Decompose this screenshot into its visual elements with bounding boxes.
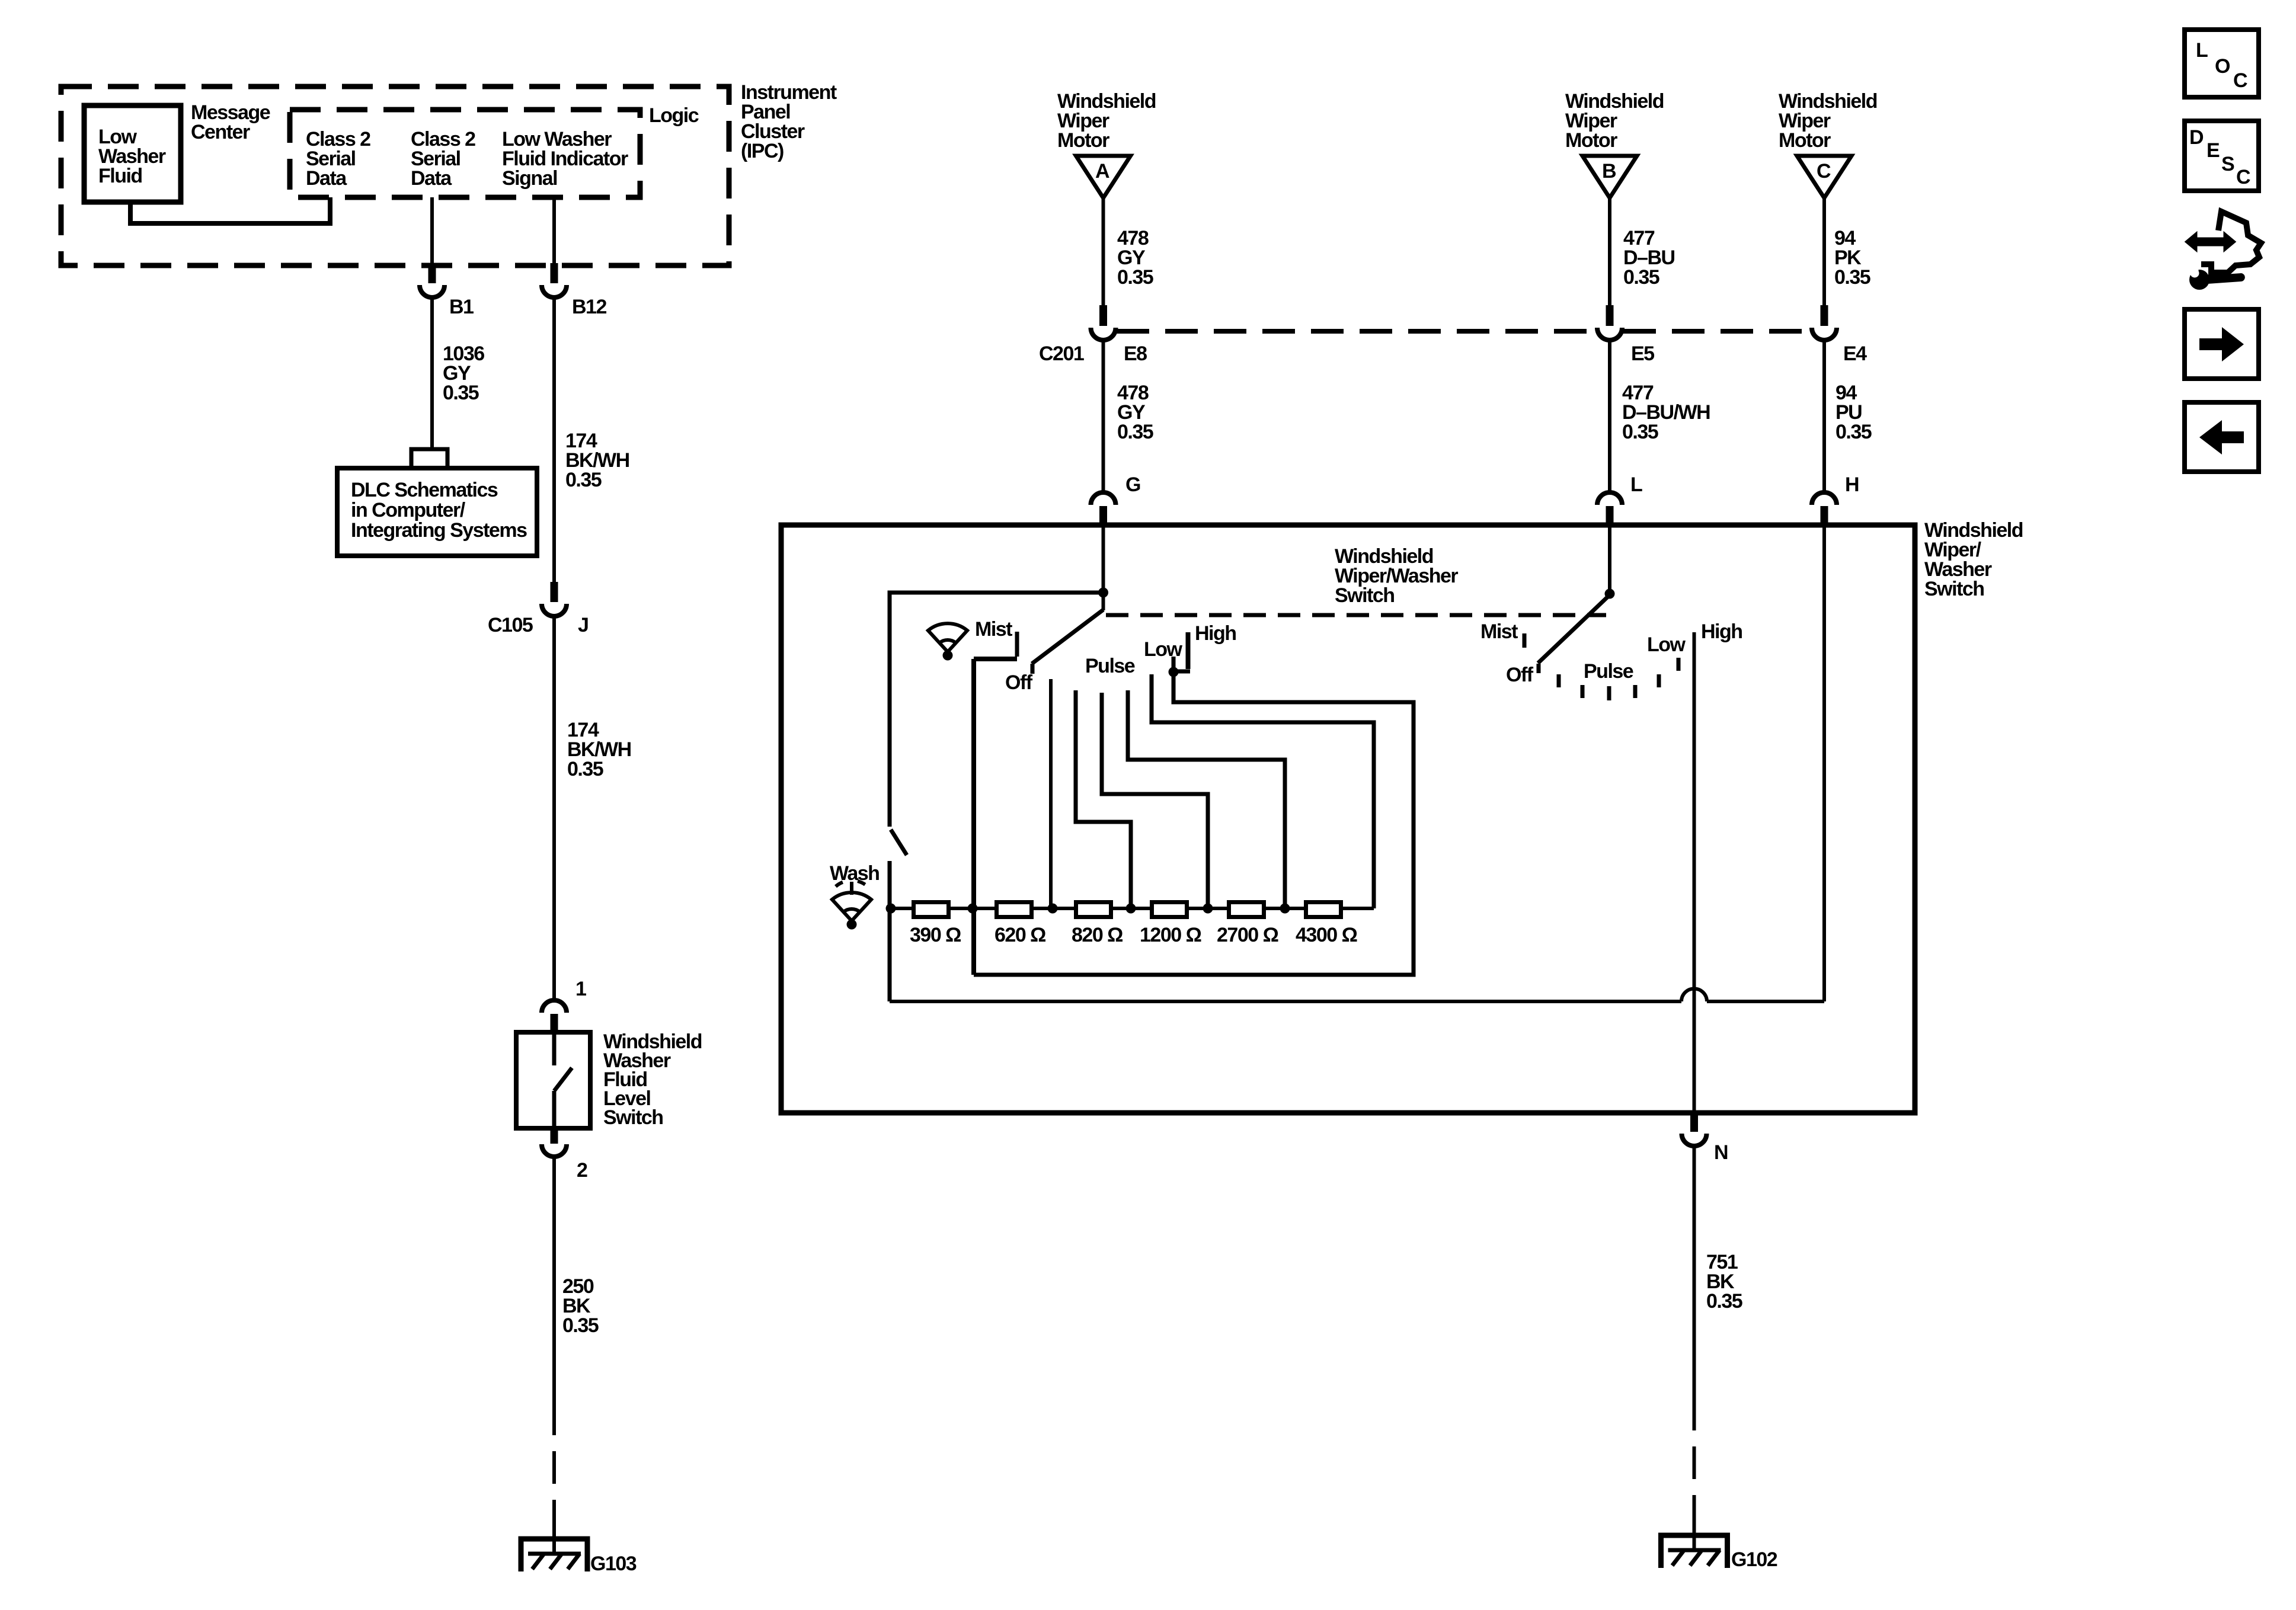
svg-text:Switch: Switch — [1335, 584, 1395, 607]
ground G103 — [521, 1517, 587, 1571]
wire Low Washer Fluid Indicator Signal to B12 — [552, 197, 556, 264]
svg-text:G102: G102 — [1731, 1548, 1777, 1571]
resistor chain wire — [891, 907, 1374, 910]
svg-text:C: C — [1817, 160, 1831, 183]
label Windshield Wiper Motor (A) — [1057, 90, 1156, 152]
windshield wiper motor B triangle — [1582, 156, 1637, 198]
wire H into switch down to wash line — [1822, 525, 1826, 1001]
svg-text:Fluid: Fluid — [98, 165, 142, 187]
svg-text:2: 2 — [577, 1159, 587, 1182]
DLC Schematics box — [337, 468, 537, 556]
High contact line to N — [1693, 632, 1696, 1113]
connector C105 pin — [551, 582, 558, 602]
svg-text:Integrating Systems: Integrating Systems — [351, 519, 527, 542]
svg-text:Pulse: Pulse — [1085, 655, 1135, 677]
IPC dashed box (Instrument Panel Cluster) — [61, 87, 729, 265]
svg-text:0.35: 0.35 — [565, 469, 602, 491]
wire 1036 GY 0.35 — [430, 297, 434, 449]
connector pin2 pin — [551, 1128, 558, 1144]
wire Class 2 Serial Data to B1 — [430, 197, 434, 264]
node 2700/4300 — [1280, 904, 1290, 914]
svg-text:C105: C105 — [488, 614, 533, 636]
svg-text:Off: Off — [1005, 671, 1033, 694]
svg-text:0.35: 0.35 — [1706, 1290, 1742, 1313]
Off contact stub — [1537, 664, 1541, 673]
svg-text:Data: Data — [411, 167, 452, 190]
label Message Center — [191, 101, 270, 143]
node wash/390 — [886, 904, 896, 914]
svg-text:S: S — [2221, 153, 2234, 175]
connector L pin — [1606, 506, 1614, 525]
wire 478 GY 0.35 (motor A) — [1102, 198, 1105, 305]
right arrow icon box — [2185, 309, 2259, 379]
connector E5 pin — [1606, 305, 1614, 326]
svg-text:L: L — [2196, 39, 2208, 62]
pulse tap 2 — [1076, 690, 1131, 908]
svg-text:820 Ω: 820 Ω — [1072, 924, 1123, 946]
connector pin1 pin — [551, 1014, 558, 1032]
wash switch blade — [891, 830, 907, 855]
connector C201 dashed line — [1117, 329, 1812, 334]
svg-text:G103: G103 — [590, 1553, 637, 1575]
junction node left wafer — [1098, 588, 1108, 598]
node 820/1200 — [1126, 904, 1136, 914]
wire L into switch — [1608, 525, 1611, 594]
svg-text:C201: C201 — [1039, 343, 1084, 365]
wiper icon (Mist) — [928, 623, 967, 660]
connector G pin — [1099, 506, 1107, 525]
svg-text:0.35: 0.35 — [1835, 421, 1872, 443]
dashed wire to G102 — [1693, 1398, 1696, 1531]
svg-text:Switch: Switch — [1924, 578, 1984, 600]
label 94 PU 0.35 — [1835, 382, 1872, 443]
junction node Low/High — [1169, 667, 1179, 677]
svg-text:Motor: Motor — [1565, 129, 1617, 152]
svg-text:Low: Low — [1144, 638, 1183, 661]
wire 478 GY 0.35 lower — [1102, 340, 1105, 491]
svg-text:(IPC): (IPC) — [741, 140, 784, 162]
connector E8 cup — [1091, 328, 1116, 340]
label 174 BK/WH 0.35 lower — [567, 719, 631, 780]
resistor 820 — [1076, 902, 1111, 917]
resistor 2700 — [1229, 902, 1264, 917]
connector B12 pin — [551, 263, 558, 283]
label Windshield Washer Fluid Level Switch — [603, 1030, 702, 1129]
switch blade (left wafer, in Off) — [1102, 593, 1105, 610]
off-page bracket to DLC — [411, 449, 447, 467]
Low contact tick — [1677, 658, 1681, 671]
svg-text:B12: B12 — [572, 296, 606, 318]
svg-text:1200 Ω: 1200 Ω — [1140, 924, 1201, 946]
label Instrument Panel Cluster (IPC) — [741, 81, 837, 162]
connector E4 pin — [1821, 305, 1828, 326]
label 478 GY 0.35 lower — [1117, 382, 1153, 443]
switch blade (right wafer, in Off) — [1538, 595, 1610, 663]
mechanical link dashed — [1106, 613, 1606, 617]
label Class 2 Serial Data (right) — [411, 128, 475, 190]
svg-text:J: J — [578, 614, 588, 636]
wire 174 BK/WH 0.35 lower — [552, 616, 556, 999]
svg-text:1: 1 — [575, 978, 586, 1000]
wire 751 BK 0.35 — [1693, 1146, 1696, 1398]
junction node right wafer — [1605, 589, 1615, 599]
label 250 BK 0.35 — [562, 1275, 599, 1337]
windshield wiper motor A triangle — [1076, 156, 1131, 198]
label Windshield Wiper/Washer Switch (outside right) — [1924, 519, 2023, 600]
svg-text:Pulse: Pulse — [1584, 660, 1633, 683]
LOC icon box — [2185, 30, 2259, 97]
Low Washer Fluid indicator box — [84, 105, 181, 202]
wire junction to wash switch — [890, 593, 1104, 827]
High return path to first tap — [974, 672, 1414, 975]
Windshield Washer Fluid Level Switch box — [516, 1032, 590, 1128]
svg-text:0.35: 0.35 — [1117, 421, 1153, 443]
connector C105 cup — [542, 604, 567, 616]
svg-text:0.35: 0.35 — [562, 1314, 599, 1337]
wash line across with hop over N line — [890, 989, 1824, 1002]
label 477 D-BU 0.35 — [1623, 227, 1675, 289]
wire 94 PK 0.35 (motor C) — [1822, 198, 1826, 305]
node 1200/2700 — [1203, 904, 1213, 914]
harness tool icon (double arrow, harness outline, wrench) — [2185, 212, 2261, 290]
svg-text:DLC Schematics: DLC Schematics — [351, 479, 498, 501]
Low line to resistor end — [1152, 674, 1374, 908]
label 751 BK 0.35 — [1706, 1251, 1742, 1313]
High contact — [1173, 632, 1190, 671]
svg-text:Mist: Mist — [1480, 620, 1518, 643]
connector E4 cup — [1812, 328, 1837, 340]
Logic dashed box — [290, 110, 640, 197]
svg-text:E4: E4 — [1843, 343, 1867, 365]
svg-text:Signal: Signal — [502, 167, 557, 190]
svg-text:C: C — [2233, 69, 2247, 92]
Windshield Wiper/Washer Switch box — [781, 525, 1915, 1113]
Low contact stub — [1172, 657, 1176, 670]
svg-text:L: L — [1630, 473, 1642, 496]
svg-text:Wash: Wash — [830, 862, 879, 885]
svg-text:B: B — [1602, 160, 1616, 183]
connector N cup — [1682, 1134, 1707, 1146]
connector B1 pin — [428, 263, 436, 283]
svg-text:A: A — [1095, 160, 1109, 183]
resistor 390 — [914, 902, 949, 917]
connector H cup (dome) — [1812, 492, 1837, 505]
connector B12 cup — [542, 285, 567, 297]
Mist contact and wire to resistor tap — [974, 632, 1017, 975]
svg-text:Motor: Motor — [1057, 129, 1109, 152]
svg-text:Data: Data — [306, 167, 347, 190]
pulse tap 3 — [1102, 693, 1208, 908]
left arrow icon box — [2185, 402, 2259, 472]
svg-text:390 Ω: 390 Ω — [910, 924, 961, 946]
svg-text:0.35: 0.35 — [1834, 266, 1870, 289]
DESC icon box — [2185, 121, 2259, 191]
svg-text:G: G — [1125, 473, 1140, 496]
fluid level switch contacts and blade — [554, 1032, 572, 1128]
Mist contact tick — [1523, 633, 1527, 648]
svg-text:C: C — [2236, 166, 2250, 188]
label 94 PK 0.35 — [1834, 227, 1870, 289]
ground G102 — [1661, 1513, 1728, 1568]
wash contact wire down — [888, 861, 892, 1001]
label Class 2 Serial Data (left) — [306, 128, 370, 190]
wire G into switch — [1102, 525, 1105, 593]
svg-text:in Computer/: in Computer/ — [351, 499, 466, 521]
svg-text:Center: Center — [191, 121, 250, 143]
svg-text:0.35: 0.35 — [1623, 266, 1659, 289]
connector G cup (dome) — [1091, 492, 1116, 505]
connector E5 cup — [1597, 328, 1622, 340]
svg-text:H: H — [1845, 473, 1859, 496]
connector H pin — [1821, 506, 1828, 525]
svg-text:E: E — [2207, 139, 2220, 162]
label Low Washer Fluid Indicator Signal — [502, 128, 628, 190]
dashed wire to G103 — [552, 1403, 556, 1535]
svg-text:Low: Low — [1647, 633, 1686, 656]
resistor 620 — [997, 902, 1032, 917]
node 390/620 — [968, 904, 978, 914]
label Windshield Wiper Motor (B) — [1565, 90, 1664, 152]
connector B1 cup — [420, 285, 445, 297]
svg-text:0.35: 0.35 — [443, 382, 479, 404]
label 174 BK/WH 0.35 upper — [565, 430, 629, 491]
label 478 GY 0.35 — [1117, 227, 1153, 289]
wire 477 D-BU/WH 0.35 — [1608, 340, 1611, 491]
svg-text:2700 Ω: 2700 Ω — [1217, 924, 1278, 946]
label Windshield Wiper Motor (C) — [1779, 90, 1877, 152]
wire Low Washer Fluid to Logic box — [130, 197, 330, 223]
svg-text:High: High — [1701, 620, 1742, 643]
resistor 4300 — [1306, 902, 1341, 917]
svg-text:Mist: Mist — [975, 618, 1012, 641]
svg-text:High: High — [1195, 622, 1236, 645]
pulse contact ticks — [1559, 674, 1659, 700]
connector E8 pin — [1099, 305, 1107, 326]
svg-text:B1: B1 — [449, 296, 474, 318]
resistor 1200 — [1152, 902, 1187, 917]
label 1036 GY 0.35 — [443, 343, 484, 404]
Off contact stub — [1031, 664, 1035, 674]
svg-text:Motor: Motor — [1779, 129, 1831, 152]
svg-text:O: O — [2215, 55, 2230, 78]
svg-text:E5: E5 — [1631, 343, 1654, 365]
pulse tap 1 — [1049, 679, 1053, 908]
svg-text:N: N — [1714, 1141, 1728, 1164]
windshield wiper motor C triangle — [1797, 156, 1851, 198]
connector pin1 cup (dome) — [542, 1000, 567, 1013]
connector L cup (dome) — [1597, 492, 1622, 505]
connector pin2 cup — [542, 1144, 567, 1157]
wire 174 BK/WH 0.35 upper — [552, 297, 556, 582]
svg-text:Switch: Switch — [603, 1106, 663, 1129]
svg-text:0.35: 0.35 — [567, 758, 603, 780]
wire 94 PU 0.35 — [1822, 340, 1826, 491]
svg-text:4300 Ω: 4300 Ω — [1296, 924, 1357, 946]
svg-text:Logic: Logic — [649, 104, 699, 127]
svg-text:0.35: 0.35 — [1622, 421, 1658, 443]
wire 477 D-BU 0.35 (motor B) — [1608, 198, 1611, 305]
connector N pin — [1690, 1113, 1698, 1132]
svg-text:620 Ω: 620 Ω — [994, 924, 1045, 946]
label 477 D-BU/WH 0.35 — [1622, 382, 1710, 443]
node 620/820 — [1048, 904, 1058, 914]
pulse tap 4 — [1128, 690, 1285, 908]
label Windshield Wiper/Washer Switch (inside) — [1335, 545, 1458, 607]
svg-text:Off: Off — [1506, 664, 1534, 686]
wire 250 BK 0.35 — [552, 1157, 556, 1403]
wiper icon (Wash) — [832, 881, 871, 930]
svg-text:E8: E8 — [1124, 343, 1147, 365]
svg-text:D: D — [2189, 126, 2204, 149]
svg-text:0.35: 0.35 — [1117, 266, 1153, 289]
